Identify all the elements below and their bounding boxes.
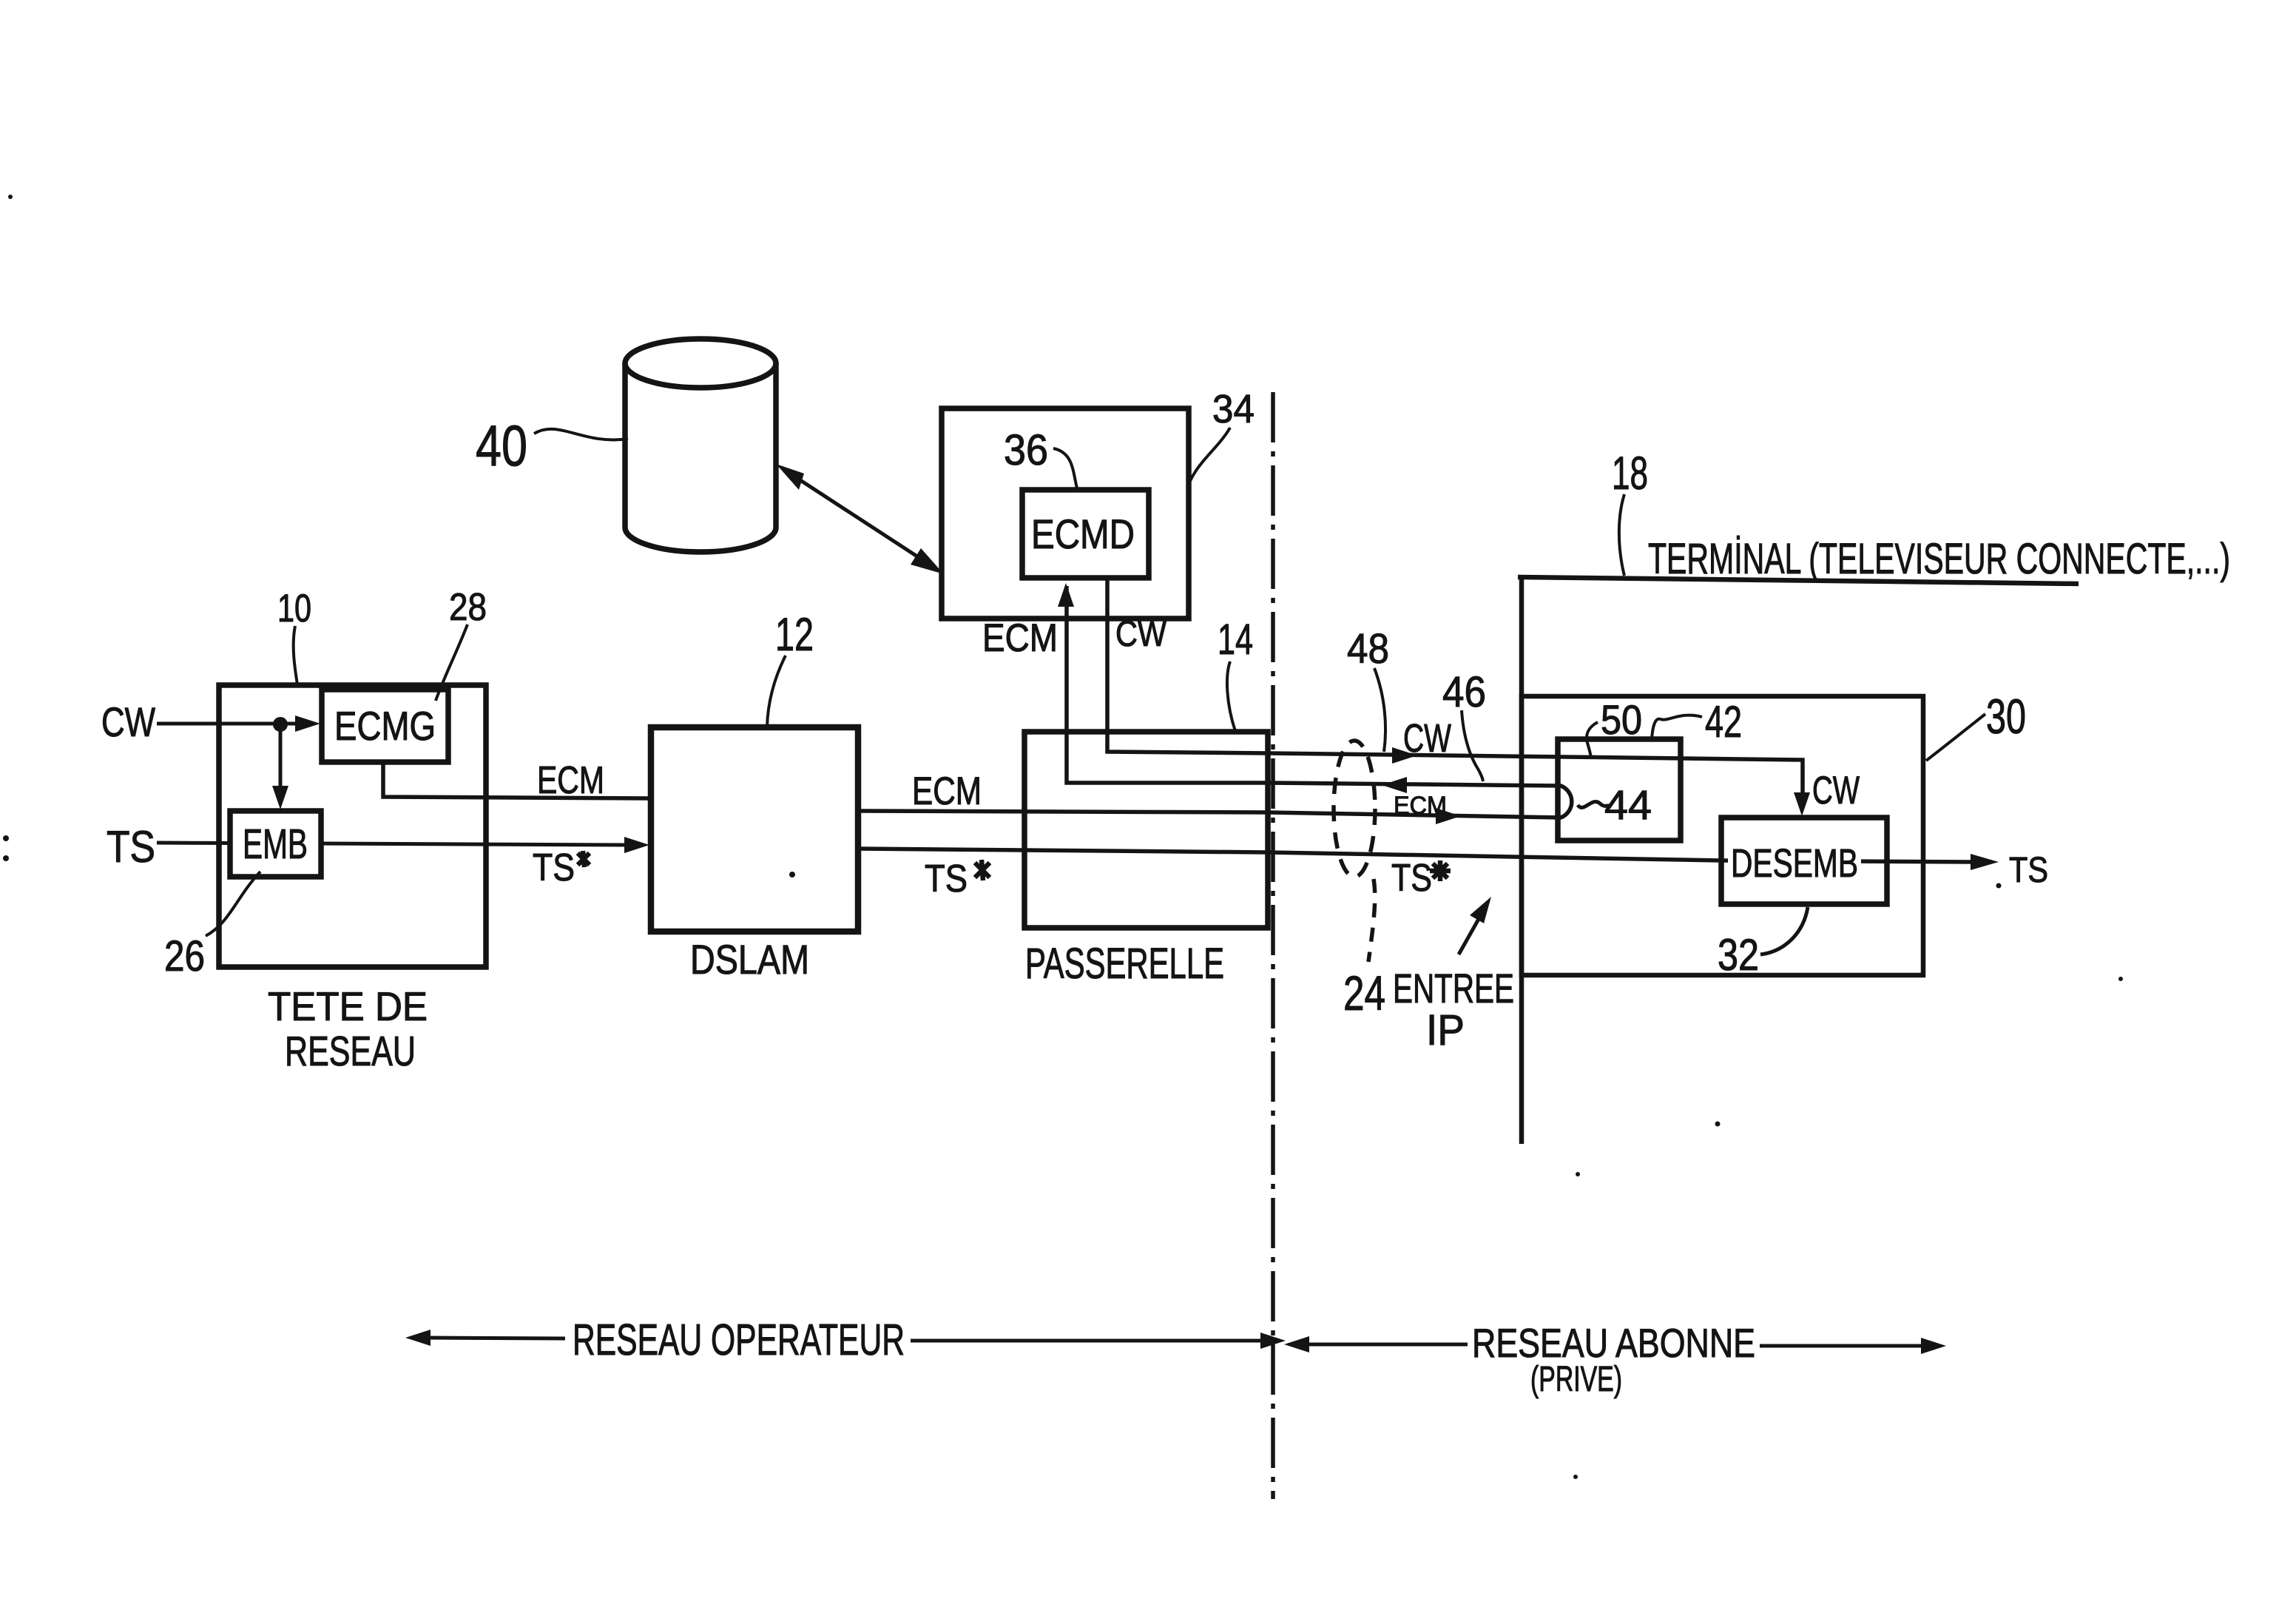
svg-text:ECM: ECM [982,616,1058,660]
label 12 [767,609,814,727]
svg-text:32: 32 [1718,930,1759,980]
svg-text:ENTREE: ENTREE [1393,965,1514,1011]
wire ECM from ECMG to DSLAM [383,762,649,798]
wire CW down to EMB [272,724,288,809]
svg-text:DSLAM: DSLAM [690,936,809,983]
label 26 [164,872,260,980]
svg-text:TS: TS [533,846,575,889]
label 24 ENTREE IP [1343,965,1514,1054]
arrow CW right (after ellipse) [1392,747,1417,764]
label TS* (box10 to DSLAM) [533,846,590,889]
node speck inside DSLAM [789,872,795,878]
bottom annotation: reseau operateur double arrow [405,1330,1286,1349]
label TETE DE RESEAU [268,983,428,1075]
label 36 [1004,426,1078,491]
svg-text:40: 40 [476,413,527,478]
svg-text:PASSERELLE: PASSERELLE [1025,940,1224,988]
svg-text:CW: CW [1115,614,1167,654]
wire TS through EMB to DSLAM [157,837,649,853]
svg-text:RESEAU OPERATEUR: RESEAU OPERATEUR [573,1316,905,1364]
box EMB 26 [230,811,321,877]
wire TS* from DSLAM through DESEMB to TS output [858,849,1999,870]
label 10 [277,587,311,684]
svg-text:12: 12 [775,609,814,661]
wire ECM forward DSLAM to box44 hook and return to ECMD [858,586,1572,818]
box 32 DESEMB [1721,818,1887,904]
box 10 tete de reseau [219,685,486,967]
label TS* (DSLAM to PASSERELLE) [925,858,990,900]
box ECMG 28 [322,690,448,762]
svg-text:CW: CW [1812,769,1860,812]
label 50 [1587,696,1642,758]
svg-text:10: 10 [277,587,311,630]
svg-text:EMB: EMB [243,821,308,868]
svg-text:48: 48 [1347,625,1389,673]
svg-text:46: 46 [1442,668,1486,716]
svg-text:28: 28 [449,586,487,629]
box ECMD 36 [1022,490,1149,578]
svg-text:42: 42 [1705,697,1742,747]
svg-text:ECM: ECM [1394,792,1447,820]
svg-text:CW: CW [1403,716,1451,761]
label 44 [1578,781,1652,828]
svg-text:26: 26 [164,932,205,980]
svg-text:TERMİNAL (TELEVISEUR CONNECTE,: TERMİNAL (TELEVISEUR CONNECTE,...) [1648,535,2230,583]
svg-text:CW: CW [101,698,155,745]
box 42 (avec 50) [1558,739,1681,841]
label 18 [1612,448,1648,576]
svg-text:18: 18 [1612,448,1648,499]
svg-text:DESEMB: DESEMB [1731,841,1858,886]
svg-text:ECM: ECM [537,759,604,802]
wire double arrow cylinder-to-box34 [776,464,944,574]
svg-text:34: 34 [1212,387,1255,431]
label 42 [1652,697,1742,747]
terminal 18 outline (vertical + horizontal) [1518,576,2079,1144]
arrow ECM forward (right) [1436,808,1461,824]
box 30 (recepteur) [1522,696,1923,975]
svg-text:TS: TS [1391,857,1432,900]
arrow ECM return (left) [1382,777,1407,793]
dashed tail of ellipse to label 24 [1368,879,1375,962]
speck marks from scan [8,195,13,199]
box 34 (serveur) [942,408,1189,619]
wire CW from ECMD to DESEMB [1107,578,1803,793]
box 14 PASSERELLE [1024,732,1268,928]
svg-text:IP: IP [1426,1006,1465,1054]
svg-text:TS: TS [107,822,155,872]
label 14 [1218,616,1253,731]
arrow ECM up into ECMD [1058,583,1074,607]
label 32 [1718,907,1808,980]
svg-text:RESEAU ABONNE: RESEAU ABONNE [1472,1320,1755,1366]
dashed ellipse 48 (connexion IP) [1334,741,1375,877]
svg-text:44: 44 [1604,781,1652,828]
svg-text:RESEAU: RESEAU [285,1028,416,1075]
cylinder 40 (database) [625,339,776,552]
label 28 [436,586,487,701]
svg-text:ECMG: ECMG [334,703,436,749]
box 12 DSLAM [651,727,858,932]
svg-text:30: 30 [1986,689,2026,744]
svg-text:ECMD: ECMD [1031,511,1135,557]
svg-text:50: 50 [1601,696,1642,743]
svg-text:36: 36 [1004,426,1048,474]
label 40 [476,413,628,478]
svg-text:TS: TS [925,858,968,900]
boundary dash-dot line (reseau operateur / abonne) [1271,392,1275,1499]
bottom annotation: reseau abonne double arrow [1284,1336,1946,1354]
svg-text:14: 14 [1218,616,1253,664]
arrow entree IP [1459,897,1491,954]
svg-text:ECM: ECM [912,769,982,813]
node junction dot [273,717,288,732]
label 46 [1442,668,1486,781]
svg-text:24: 24 [1343,966,1385,1020]
arrow CW down into DESEMB [1794,792,1810,816]
label 30 [1926,689,2026,761]
label TS* (right of dash-dot line) [1391,857,1451,900]
svg-text:(PRIVE): (PRIVE) [1530,1360,1622,1399]
label 48 [1347,625,1389,752]
wire CW into ECMG [157,715,320,732]
svg-text:TETE DE: TETE DE [268,983,428,1029]
svg-text:TS: TS [2009,851,2048,890]
label 34 [1190,387,1255,481]
